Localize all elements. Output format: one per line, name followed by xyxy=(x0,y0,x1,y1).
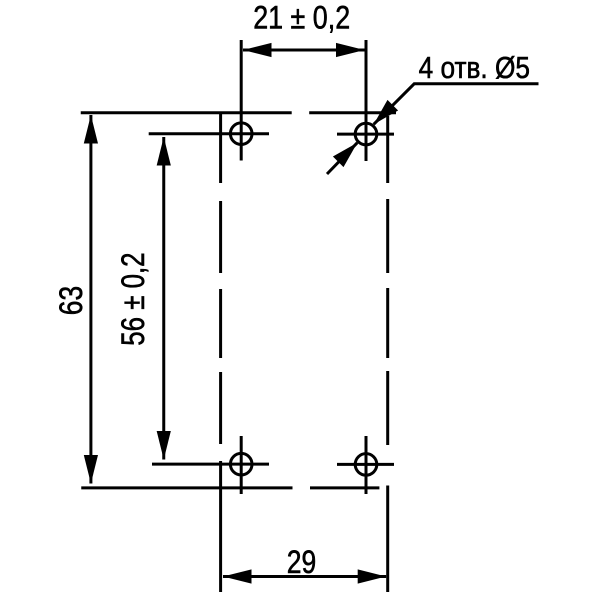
hole BL vertical centerline xyxy=(240,436,243,494)
arrowhead dim63 bottom xyxy=(84,455,98,484)
dim line 63 xyxy=(89,115,92,484)
hole TR vertical centerline / dim 21 right extension xyxy=(365,40,368,161)
svg-text:56 ± 0,2: 56 ± 0,2 xyxy=(116,252,151,345)
leader line to hole TR xyxy=(374,84,539,125)
dim line 21 xyxy=(243,49,365,52)
arrowhead dim56 bottom xyxy=(157,431,171,460)
hole BL horizontal centerline xyxy=(152,463,269,466)
hole BR horizontal centerline xyxy=(337,463,394,466)
hole BR vertical centerline xyxy=(365,436,368,494)
body outline top edge right segment xyxy=(309,111,396,114)
hole TR horizontal centerline xyxy=(337,133,394,136)
body outline left edge (dashed hidden line) xyxy=(219,114,222,444)
body outline right edge (dashed hidden line) xyxy=(386,116,389,445)
hole BR circle xyxy=(355,454,377,476)
arrowhead dim29 right xyxy=(358,569,387,583)
svg-text:21 ± 0,2: 21 ± 0,2 xyxy=(253,0,350,36)
svg-text:63: 63 xyxy=(53,286,89,315)
arrowhead leader upper (points down-left at hole TR) xyxy=(374,100,398,124)
svg-text:4 отв. Ø5: 4 отв. Ø5 xyxy=(419,51,530,86)
hole BL circle xyxy=(230,453,252,475)
extension line right for dim 29 xyxy=(386,486,389,593)
body outline top edge left segment xyxy=(81,111,292,114)
arrowhead dim63 top xyxy=(84,115,98,144)
arrowhead dim56 top xyxy=(157,137,171,166)
arrowhead dim21 right xyxy=(336,43,365,57)
leader opposite arrow line xyxy=(327,143,357,174)
body outline bottom edge right segment xyxy=(310,486,379,489)
body outline bottom edge left segment xyxy=(81,486,292,489)
svg-text:29: 29 xyxy=(287,545,316,581)
dim line 29 xyxy=(223,575,386,578)
hole TL circle xyxy=(230,123,252,145)
hole TR circle xyxy=(355,123,377,145)
dim line 56 xyxy=(162,137,165,460)
arrowhead leader lower (points up-right at hole TR) xyxy=(333,143,357,167)
hole TL vertical centerline / dim 21 left extension xyxy=(240,40,243,161)
arrowhead dim29 left xyxy=(223,569,252,583)
arrowhead dim21 left xyxy=(243,43,272,57)
hole TL horizontal centerline xyxy=(149,132,269,135)
extension line left for dim 29 xyxy=(219,461,222,592)
